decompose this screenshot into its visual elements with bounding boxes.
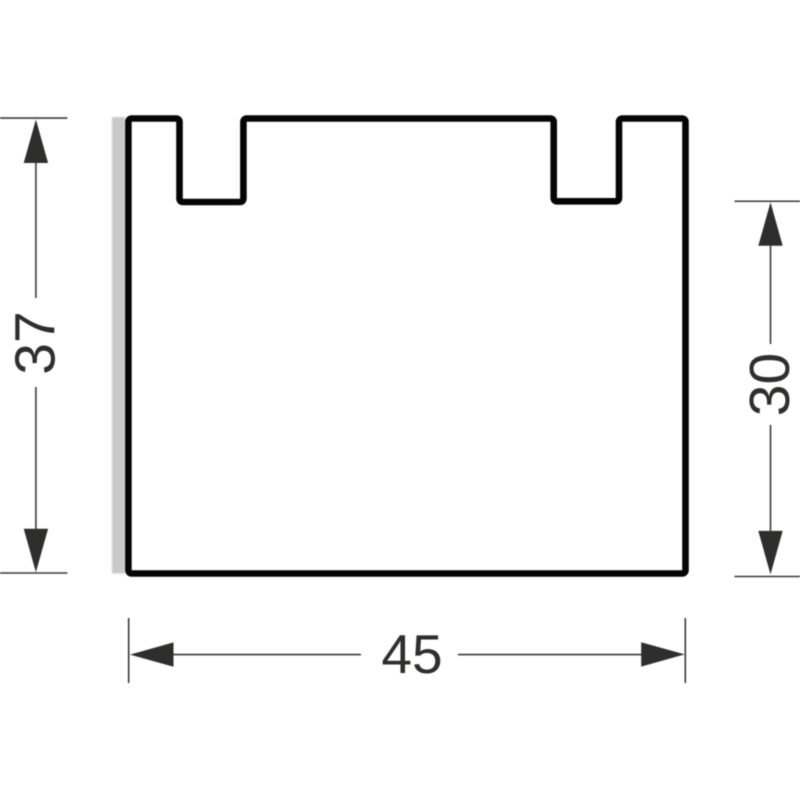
arrow 37 down <box>24 529 48 573</box>
svg-text:37: 37 <box>4 311 68 374</box>
svg-text:45: 45 <box>381 623 442 685</box>
dim 45 line left segment <box>173 654 361 656</box>
dim 37 extension line top <box>0 117 67 119</box>
svg-text:30: 30 <box>738 353 800 416</box>
dim 30 extension line bottom <box>735 576 800 578</box>
left extrusion shadow <box>112 117 125 574</box>
dim 45 line right segment <box>458 654 642 656</box>
dim 30 line lower segment <box>770 425 772 532</box>
arrow 30 down <box>758 531 782 575</box>
dim 45 extension line left <box>128 618 130 683</box>
dim 37 extension line bottom <box>0 572 67 574</box>
dim 30 extension line top <box>735 200 800 202</box>
arrow 37 up <box>24 120 48 164</box>
arrow 45 right <box>641 642 685 666</box>
dim 37 line upper segment <box>35 162 37 298</box>
arrow 45 left <box>130 642 174 666</box>
arrow 30 up <box>758 202 782 246</box>
profile outline <box>128 119 685 574</box>
dim 45 extension line right <box>684 618 686 683</box>
dim 30 line upper segment <box>770 245 772 344</box>
dim 37 line lower segment <box>35 387 37 530</box>
